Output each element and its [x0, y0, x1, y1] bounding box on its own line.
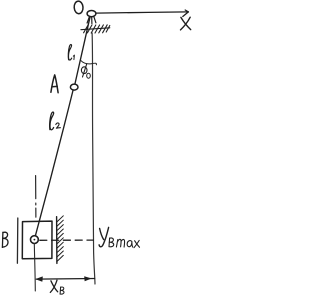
subscript B of xB [60, 287, 64, 294]
pin support hatching [84, 25, 110, 33]
subscript 0 of phi [87, 73, 91, 78]
label phi0 [81, 64, 87, 77]
label xB [50, 280, 57, 292]
slider box B [22, 221, 52, 259]
extension line below B [34, 244, 35, 291]
label B [2, 232, 8, 247]
label O [74, 1, 84, 14]
dimension line xB [36, 277, 95, 282]
label X (axis) [181, 17, 191, 30]
dashed line yB [40, 239, 94, 241]
angle arc phi0 [81, 60, 97, 65]
guide centerline (dash-dot) [35, 176, 37, 221]
label l1 [68, 44, 71, 60]
x-axis [96, 10, 188, 17]
label yB max [99, 227, 109, 246]
link l1 [75, 17, 90, 84]
pin support base line [81, 28, 110, 30]
wall hatching [57, 216, 64, 262]
label A [51, 75, 58, 93]
label l2 [50, 112, 54, 130]
main vertical line [92, 33, 95, 284]
pin legs [87, 16, 96, 23]
subscript 1 of l1 [73, 55, 74, 60]
left guide line [16, 218, 18, 263]
pivot pin at O [87, 11, 96, 17]
joint B [31, 236, 39, 244]
subscript 2 of l2 [56, 123, 61, 128]
word max [116, 239, 139, 247]
link l2 [35, 90, 73, 236]
wall line [56, 217, 58, 264]
joint A [70, 84, 78, 90]
subscript B of yB [109, 238, 114, 247]
